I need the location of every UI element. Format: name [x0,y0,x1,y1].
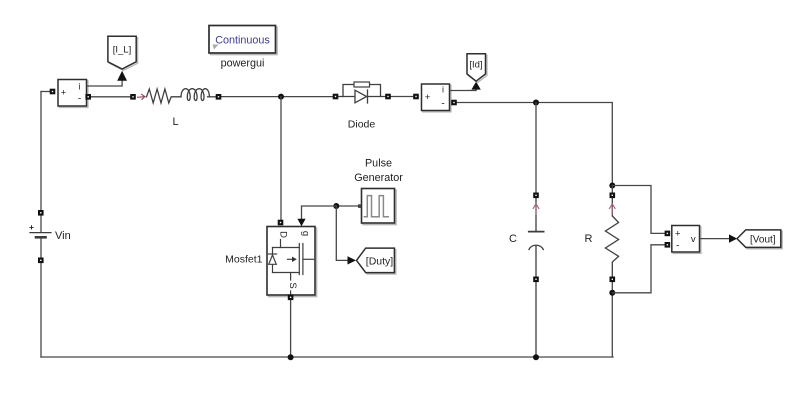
port R top [610,193,616,199]
mosfet internal symbol [269,240,314,295]
svg-text:g: g [300,231,311,236]
wire left rail vertical [40,92,42,358]
capacitor C branch [535,199,537,358]
powergui block [209,26,277,55]
port mosfet S [288,295,294,301]
svg-text:v: v [691,234,696,245]
port CM1 - [85,94,91,100]
arrowhead into Vout tag [729,234,737,242]
arrowhead into I_L tag [117,71,127,81]
port battery + [38,210,44,216]
port C bottom [533,277,539,283]
wire bottom rail [41,356,613,358]
wire R bottom port to node and down to rail corner [611,283,613,358]
wire CM1 i output to goto I_L [87,81,123,87]
wire C tap down [535,103,537,193]
wire mosfet source down to ground rail [290,301,292,358]
svg-text:[Duty]: [Duty] [366,255,394,267]
mosfet body diode triangle [269,255,277,264]
node R top [609,183,615,189]
mosfet channel arrow [292,257,297,262]
series RL branch: red current arrow [138,94,145,99]
svg-text:+: + [29,222,34,232]
svg-text:Vin: Vin [55,230,71,242]
svg-text:Mosfet1: Mosfet1 [225,254,263,266]
goto tag [I_L] [108,36,138,70]
mosfet Q1 block [267,227,317,297]
pulse generator block [362,189,397,225]
goto tag [Id] [467,54,487,83]
svg-text:S: S [287,282,298,288]
svg-text:[I_L]: [I_L] [113,44,132,55]
DC source Vin battery [30,233,51,238]
wire CM2 i output to goto Id [450,90,477,91]
svg-text:Continuous: Continuous [215,34,270,46]
svg-text:powergui: powergui [221,58,265,70]
wire gate node to mosfet gate [302,206,337,219]
wire pulse gen output to gate node [336,205,361,207]
port VM - [665,242,671,248]
wire CM2 minus output rail to R column [457,103,613,186]
wire L to diode with node [221,96,334,98]
svg-text:Pulse: Pulse [365,158,392,170]
arrowhead into Id tag [471,82,480,90]
svg-text:R: R [585,233,593,245]
current measurement U1 (I_L sense) [58,80,88,108]
pulse generator output port nub [358,204,361,207]
wire coil to right port of RL branch [208,96,217,98]
port battery - [38,258,44,264]
port white centers [40,91,668,298]
node R bottom [609,290,615,296]
port diode anode [333,94,339,100]
port RL right [216,94,222,100]
svg-text:-: - [676,240,679,251]
svg-text:-: - [441,99,444,110]
svg-text:+: + [675,228,681,239]
resistor of RL branch [147,89,182,103]
port RL left [130,94,136,100]
inductor L coil [181,89,209,101]
svg-text:[Id]: [Id] [469,59,482,70]
port squares [38,89,670,300]
svg-text:L: L [172,116,178,128]
svg-text:+: + [425,92,431,103]
svg-text:D: D [278,231,289,238]
node C bottom on rail [533,354,539,360]
wire voltmeter output to Vout tag [700,238,730,240]
wire R bottom tap to voltmeter minus [612,245,664,293]
wire diode to CM2 [390,96,413,98]
arrowhead into Duty tag [348,256,357,264]
port R bottom [610,277,616,283]
arrowhead into mosfet gate [297,219,305,226]
port diode cathode [385,94,391,100]
svg-text:i: i [79,82,81,92]
svg-text:+: + [61,88,67,99]
svg-text:[Vout]: [Vout] [750,235,776,246]
svg-text:Generator: Generator [354,172,403,184]
node C branch tap [533,100,539,106]
voltage measurement U3 [672,226,701,254]
red current arrow R [610,204,616,214]
svg-text:C: C [509,233,517,245]
goto tag [Vout] [737,230,782,249]
wire node down to mosfet drain [280,97,282,220]
port VM + [665,231,671,237]
wire R top tap to voltmeter plus [612,186,664,234]
red current arrow C [533,204,539,215]
port CM2 - [451,100,457,106]
node at drain column [278,94,284,100]
diode snubber resistor box [354,82,370,87]
capacitor plates [529,231,544,233]
wire CM1 minus output to series RL [87,96,132,98]
port CM1 + [50,89,56,95]
node source on rail [288,354,294,360]
port mosfet D [278,220,284,226]
svg-text:i: i [442,85,444,95]
current measurement U2 (Id sense) [422,84,451,112]
resistor R branch [605,199,618,277]
wire gate node down to Duty tag [336,206,347,260]
node gate branch [333,203,339,209]
diode D1 [338,85,387,104]
wire left rail to CM1 plus [41,91,50,93]
goto tag [Duty] [357,248,396,274]
wire R top node to port [611,186,613,193]
svg-text:-: - [78,94,81,105]
port CM2 + [413,94,419,100]
port C top [533,193,539,199]
svg-text:Diode: Diode [348,118,376,130]
